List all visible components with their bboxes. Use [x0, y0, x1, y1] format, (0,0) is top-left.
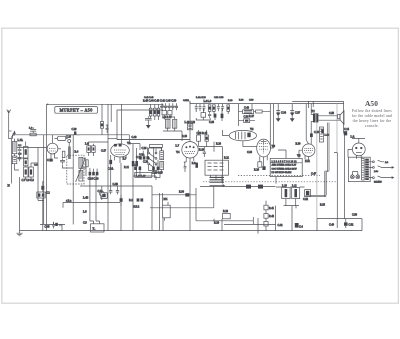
coil L2	[12, 156, 16, 164]
trimmer C11	[87, 146, 91, 153]
coil L3 with core	[24, 147, 29, 159]
electrolytic C37	[290, 104, 294, 122]
trimmer C3	[30, 127, 36, 133]
svg-text:I.F 465 KC/S GRAM: I.F 465 KC/S GRAM	[272, 171, 292, 174]
resistor R15	[213, 105, 216, 112]
coil L6	[29, 167, 34, 177]
aerial input arrow	[11, 134, 14, 138]
capacitor C31	[217, 104, 220, 112]
V3 bottom wire	[242, 141, 244, 147]
svg-text:L.11: L.11	[292, 185, 297, 188]
coil L1	[12, 142, 16, 154]
output transformer T1	[313, 113, 315, 122]
osc coil box L18 L19	[135, 172, 152, 177]
trimmer cap C40	[164, 103, 167, 110]
svg-text:C.42: C.42	[278, 224, 284, 227]
left screen wire pair	[44, 104, 47, 230]
bypass C41A	[262, 166, 265, 170]
volume pot box	[223, 213, 231, 218]
wire HT branch	[111, 104, 121, 122]
trimmer cap C41	[161, 103, 164, 110]
heater wires down	[337, 133, 344, 218]
V3 anode	[247, 133, 250, 138]
cathode bias parts	[184, 162, 187, 172]
resistor R27	[256, 110, 262, 113]
wire screen feed	[102, 104, 109, 135]
capacitor C29 on rail	[74, 131, 76, 135]
svg-text:MURPHY – A50: MURPHY – A50	[60, 107, 93, 112]
svg-text:C.29: C.29	[72, 128, 78, 131]
mains primary winding	[365, 159, 369, 180]
osc coil L15	[160, 151, 164, 160]
capacitor C30	[197, 135, 201, 141]
coil L12	[165, 119, 170, 128]
wire mid drops	[111, 186, 121, 206]
valve V4 output pentode	[257, 139, 271, 157]
V3 electrodes	[235, 132, 245, 140]
trimmer cap C39	[168, 103, 171, 110]
svg-text:console.: console.	[365, 124, 379, 128]
svg-text:C.50: C.50	[352, 213, 358, 216]
earth arrow	[147, 122, 151, 128]
wire IF out	[133, 166, 156, 180]
svg-text:MAINS: MAINS	[374, 180, 382, 183]
IFT secondary coil	[79, 170, 83, 181]
svg-text:OSC TUNER COILS M.W: OSC TUNER COILS M.W	[272, 168, 298, 170]
junction dots AVC	[90, 185, 152, 187]
capacitor C44B	[258, 185, 263, 189]
svg-text:C.21: C.21	[133, 164, 138, 167]
junction dot grid	[182, 134, 190, 141]
antenna A	[7, 110, 11, 114]
svg-text:R.27: R.27	[249, 115, 255, 118]
capacitor C8	[60, 159, 65, 164]
svg-text:C.7 C.9 C.5: C.7 C.9 C.5	[22, 179, 35, 182]
svg-text:R.31: R.31	[305, 160, 311, 163]
wire screen dropper	[72, 135, 74, 225]
trimmer cap C37A	[175, 103, 178, 110]
V1 top pin	[51, 135, 58, 162]
gram terminal box	[91, 224, 104, 232]
heavy vertical pair to mains	[334, 133, 345, 152]
dial lamp P1	[351, 175, 355, 179]
wire HT tap	[308, 101, 310, 108]
grid caps C16 C18	[89, 172, 92, 176]
osc switch contact S6	[155, 163, 157, 165]
wire V4 anode to transformer	[271, 104, 274, 148]
padder caps row 2	[134, 167, 137, 170]
svg-text:R.41: R.41	[269, 207, 275, 210]
svg-text:C.16 C.18: C.16 C.18	[88, 178, 99, 181]
trimmer cap C38A	[171, 103, 174, 110]
wire IFT secondary out	[83, 142, 108, 176]
svg-text:R.43 C.44 C.43: R.43 C.44 C.43	[143, 99, 160, 102]
sub rail right	[317, 219, 362, 231]
junction dot C48A	[275, 223, 277, 225]
cathode resistor R28	[258, 162, 262, 167]
wire to C16	[42, 181, 44, 231]
wire V5 couple	[299, 150, 309, 160]
coil L5	[24, 167, 29, 177]
hum caps C53 C54	[321, 129, 324, 133]
svg-text:C.42 C.43: C.42 C.43	[144, 97, 154, 99]
svg-text:L.18 L.19: L.18 L.19	[136, 174, 146, 177]
switch arm arrows	[150, 154, 156, 167]
speaker field wires	[325, 123, 329, 196]
capacitor C32A	[214, 114, 217, 118]
capacitor C38	[244, 119, 250, 123]
voltage tap row 2	[369, 166, 394, 169]
wire AVC line	[108, 138, 117, 140]
junction dot	[242, 146, 244, 148]
second row box C29A	[201, 113, 206, 118]
choke L24	[320, 127, 324, 142]
PU wire	[152, 186, 196, 231]
nameplate box MURPHY A50	[55, 107, 98, 114]
resistor R45	[157, 108, 160, 116]
svg-text:C.20: C.20	[142, 147, 148, 150]
svg-text:R.19: R.19	[199, 148, 205, 151]
top rail right	[190, 103, 344, 105]
osc grid resistor R8	[132, 161, 135, 166]
capacitor C52	[305, 190, 311, 197]
svg-text:C.35: C.35	[209, 121, 215, 124]
trimmer C12	[92, 146, 96, 153]
capacitor block C14 C7	[37, 192, 45, 198]
wavegang bars	[210, 177, 225, 182]
cathode resistor R6	[109, 160, 112, 164]
capacitor C26	[195, 104, 198, 112]
wire T1 primary	[311, 104, 313, 144]
V1 anode wire	[58, 148, 61, 150]
svg-text:C.38: C.38	[244, 116, 250, 119]
capacitor C35	[221, 114, 224, 119]
osc switch contact S5	[155, 158, 157, 160]
svg-text:A: A	[14, 132, 16, 135]
heavy console line	[305, 171, 326, 197]
small box L14	[58, 136, 66, 140]
bus dots extra	[133, 228, 337, 231]
svg-text:A50: A50	[365, 99, 378, 108]
mains transformer box	[348, 157, 370, 181]
V5 pins	[305, 144, 311, 160]
rectifier V6	[352, 143, 365, 156]
resistor R30B	[185, 193, 189, 196]
AF line	[150, 207, 214, 209]
corner tick	[46, 103, 49, 105]
wire row2 links	[196, 109, 228, 121]
valve V2 IF amplifier	[182, 142, 198, 158]
svg-text:C.26: C.26	[139, 153, 144, 156]
svg-text:R.11: R.11	[124, 166, 130, 169]
tap contact 2	[373, 167, 375, 169]
speaker LS	[338, 114, 340, 118]
svg-text:C.4B: C.4B	[113, 183, 119, 186]
resistor R2 blobs	[137, 198, 140, 201]
switch unit contacts	[208, 163, 224, 170]
V2 top pin	[189, 101, 191, 141]
svg-text:L.S.: L.S.	[351, 135, 356, 138]
bottom step wire	[196, 217, 276, 234]
lamp wires	[352, 172, 357, 175]
svg-text:C.37: C.37	[295, 112, 301, 115]
screen resistor R3	[62, 151, 65, 157]
choke CH9	[336, 223, 338, 225]
top dot	[163, 103, 311, 106]
cap C11B	[344, 131, 347, 135]
wire mixer grid	[108, 135, 129, 144]
bottom earth bus	[20, 230, 363, 232]
wire cathode to bus	[111, 155, 121, 231]
osc anode load R13A	[150, 145, 163, 148]
svg-text:C.13: C.13	[66, 136, 72, 139]
tone control box	[163, 205, 171, 218]
svg-text:C.10: C.10	[47, 159, 53, 162]
V4 cathode pins	[260, 156, 267, 166]
capacitor C45	[52, 222, 55, 229]
svg-text:P.U.: P.U.	[164, 198, 169, 201]
coupling caps row C23 C25 C26A	[139, 156, 142, 159]
IFT primary coil	[79, 157, 83, 168]
wire osc anode	[148, 147, 162, 172]
electrolytic C34	[276, 104, 280, 122]
resistor R44	[154, 108, 157, 116]
feedback resistor R42	[264, 214, 268, 219]
osc coil box L20	[155, 172, 161, 177]
svg-text:C.51: C.51	[349, 223, 355, 226]
valve V1 RF amp	[47, 143, 58, 154]
valve V5 AF	[302, 144, 315, 157]
wire: RF feed vertical	[38, 148, 44, 201]
capacitor C46	[145, 116, 152, 122]
wire AF takeoff	[63, 203, 120, 208]
osc coil L16	[160, 161, 164, 169]
capacitor C2	[18, 155, 22, 161]
wire IF2 links	[163, 115, 182, 141]
svg-text:R.21: R.21	[224, 157, 230, 160]
screen resistor R1A	[100, 122, 103, 129]
wire input links	[9, 131, 47, 180]
cap C21A	[120, 198, 123, 202]
feedback resistor R41	[264, 205, 268, 210]
V3 left pin	[222, 130, 229, 136]
switch unit box	[205, 160, 228, 175]
coil L4	[24, 159, 29, 166]
svg-text:R.13: R.13	[182, 135, 188, 138]
dotted table-model line	[203, 175, 337, 181]
svg-text:C.48: C.48	[132, 136, 138, 139]
V1 grids	[114, 150, 126, 155]
earth lead N wire	[11, 139, 13, 184]
svg-text:R.26: R.26	[254, 168, 260, 171]
V6 anode dots	[355, 147, 357, 149]
svg-text:C.14: C.14	[344, 128, 350, 131]
svg-text:L.7A: L.7A	[18, 139, 24, 142]
svg-text:T..: T..	[93, 228, 96, 231]
svg-text:L.8A C.28: L.8A C.28	[196, 96, 206, 99]
grid coupling wire	[121, 110, 123, 144]
rail jog	[160, 101, 190, 106]
wires smoothing	[239, 104, 271, 148]
junction dot C48	[129, 135, 135, 140]
V4 grid strokes	[259, 140, 268, 154]
V1 cathode pins	[115, 155, 127, 163]
AVC line right	[316, 123, 318, 219]
svg-text:Follow the dotted lines: Follow the dotted lines	[352, 109, 392, 113]
antenna down-lead wire	[9, 113, 13, 138]
svg-text:C.45: C.45	[45, 226, 51, 229]
valve V1 frequency changer	[111, 144, 130, 157]
wire V1 to IFT	[55, 138, 74, 168]
mains secondary winding	[362, 159, 365, 180]
svg-text:R.30: R.30	[179, 190, 185, 193]
wire sub-bus	[40, 222, 65, 231]
svg-text:R.33: R.33	[320, 203, 326, 206]
svg-text:C.23: C.23	[143, 161, 149, 164]
coil-pack box outline	[117, 110, 190, 140]
switch unit dots	[212, 163, 224, 170]
table inner line	[270, 162, 302, 164]
wire table feed	[278, 150, 286, 158]
capacitor C44A	[59, 224, 62, 225]
choke L10	[282, 188, 290, 199]
svg-text:C.55: C.55	[329, 112, 335, 115]
svg-text:C.47: C.47	[311, 173, 317, 176]
junction dots	[214, 146, 222, 148]
svg-text:a R.a: a R.a	[66, 200, 72, 203]
AVC resistor R12	[99, 191, 104, 196]
svg-text:AER TUNER COILS L.W: AER TUNER COILS L.W	[272, 164, 298, 167]
mains line row	[369, 176, 394, 179]
V5 inner grid	[304, 148, 313, 152]
wavegang arrows	[210, 184, 225, 186]
osc switch contact S4	[155, 152, 157, 154]
capacitor C28	[203, 104, 206, 112]
wire: aerial rail	[12, 134, 108, 136]
svg-text:C.41 C.40 C.39: C.41 C.40 C.39	[160, 99, 177, 102]
wire feedback chain	[266, 201, 276, 231]
V4 grid feed	[243, 146, 257, 148]
tuning arrow	[76, 158, 86, 182]
voltage tap row 1	[369, 160, 384, 162]
section divider wire	[107, 104, 109, 230]
resistor R1	[30, 133, 36, 136]
capacitor C43B	[246, 185, 251, 189]
V2 grid	[184, 151, 195, 153]
capacitor C30A	[208, 112, 211, 118]
resistor R43	[149, 108, 152, 116]
svg-text:the heavy lines for the: the heavy lines for the	[353, 119, 392, 123]
svg-text:for the table model and: for the table model and	[352, 114, 392, 118]
svg-text:C.37A: C.37A	[183, 99, 189, 102]
trimmer box T4	[168, 111, 172, 115]
wire detector out	[199, 130, 223, 152]
wire choke links	[276, 177, 305, 209]
cap C14A plates	[109, 190, 119, 194]
svg-text:R.30: R.30	[296, 142, 302, 145]
AVC bus wire	[80, 185, 152, 187]
ground symbol chassis	[16, 177, 22, 236]
resistor R18	[227, 105, 230, 112]
padder C21	[142, 151, 145, 160]
feedback resistor R46	[264, 221, 268, 226]
wire osc section	[129, 144, 140, 171]
wire bus risers	[133, 176, 317, 231]
trimmer box T3	[162, 111, 167, 115]
svg-text:C.17: C.17	[101, 149, 107, 152]
wire AVC long	[117, 139, 190, 141]
V1 anode plates	[114, 144, 117, 147]
wire AF filter	[200, 186, 276, 188]
console speaker box	[292, 101, 343, 133]
mains contact	[373, 177, 375, 179]
capacitor C33	[221, 104, 224, 112]
PU coupling dots	[169, 194, 197, 196]
svg-text:R.20: R.20	[216, 143, 222, 146]
V2 cathode pins	[186, 157, 194, 230]
osc switch contact S3	[148, 163, 150, 165]
wire osc tank	[149, 148, 162, 173]
capacitor C42B	[295, 223, 299, 228]
svg-text:R.42: R.42	[269, 215, 275, 218]
V2 diode dots	[185, 146, 187, 148]
volume control R19	[203, 147, 206, 157]
wire switch drops	[211, 175, 223, 208]
IF transformer T2 box	[67, 155, 84, 184]
wire T1 secondary to speaker	[318, 116, 340, 120]
dial lamp P2	[356, 175, 360, 179]
svg-text:C.40: C.40	[244, 107, 250, 110]
capacitor C43 row	[45, 223, 50, 225]
svg-text:C.49: C.49	[329, 223, 335, 226]
console vertical	[336, 104, 338, 153]
svg-text:C.36: C.36	[247, 151, 253, 154]
valve V3 double diode triode	[229, 130, 256, 140]
capacitor C16	[41, 186, 44, 190]
resistor R14	[208, 105, 211, 112]
tap contact	[373, 161, 375, 163]
coil L14	[187, 124, 192, 130]
V6 inner heater	[356, 151, 362, 153]
choke L11	[292, 188, 300, 199]
choke CH4	[243, 110, 254, 114]
wires resistor tops	[151, 104, 159, 120]
svg-text:R.22: R.22	[223, 210, 229, 213]
resistor R16	[205, 135, 208, 141]
CH9 wires	[337, 219, 346, 228]
V6 top wire	[352, 138, 365, 143]
svg-text:C.31 C.33: C.31 C.33	[214, 97, 224, 99]
osc switch contact S1	[148, 152, 150, 154]
capacitor C27	[199, 104, 202, 112]
V5 top pin	[306, 104, 308, 144]
svg-text:R.24: R.24	[214, 221, 220, 224]
wire gram drops	[90, 186, 100, 221]
svg-text:G.B.2: G.B.2	[133, 206, 140, 209]
svg-text:L.4B: L.4B	[83, 196, 89, 199]
wire AF coupling	[221, 147, 223, 184]
junction dot	[108, 104, 111, 135]
wire rail tap	[239, 104, 253, 112]
wire AVC return	[90, 168, 97, 186]
V4 anode tick	[261, 140, 267, 142]
capacitor C24	[101, 193, 107, 199]
switch table box	[270, 158, 302, 176]
resistor R5	[86, 160, 89, 167]
junction dots rails	[52, 101, 313, 134]
capacitor C1	[18, 147, 22, 153]
grid leak R2A	[68, 147, 71, 160]
